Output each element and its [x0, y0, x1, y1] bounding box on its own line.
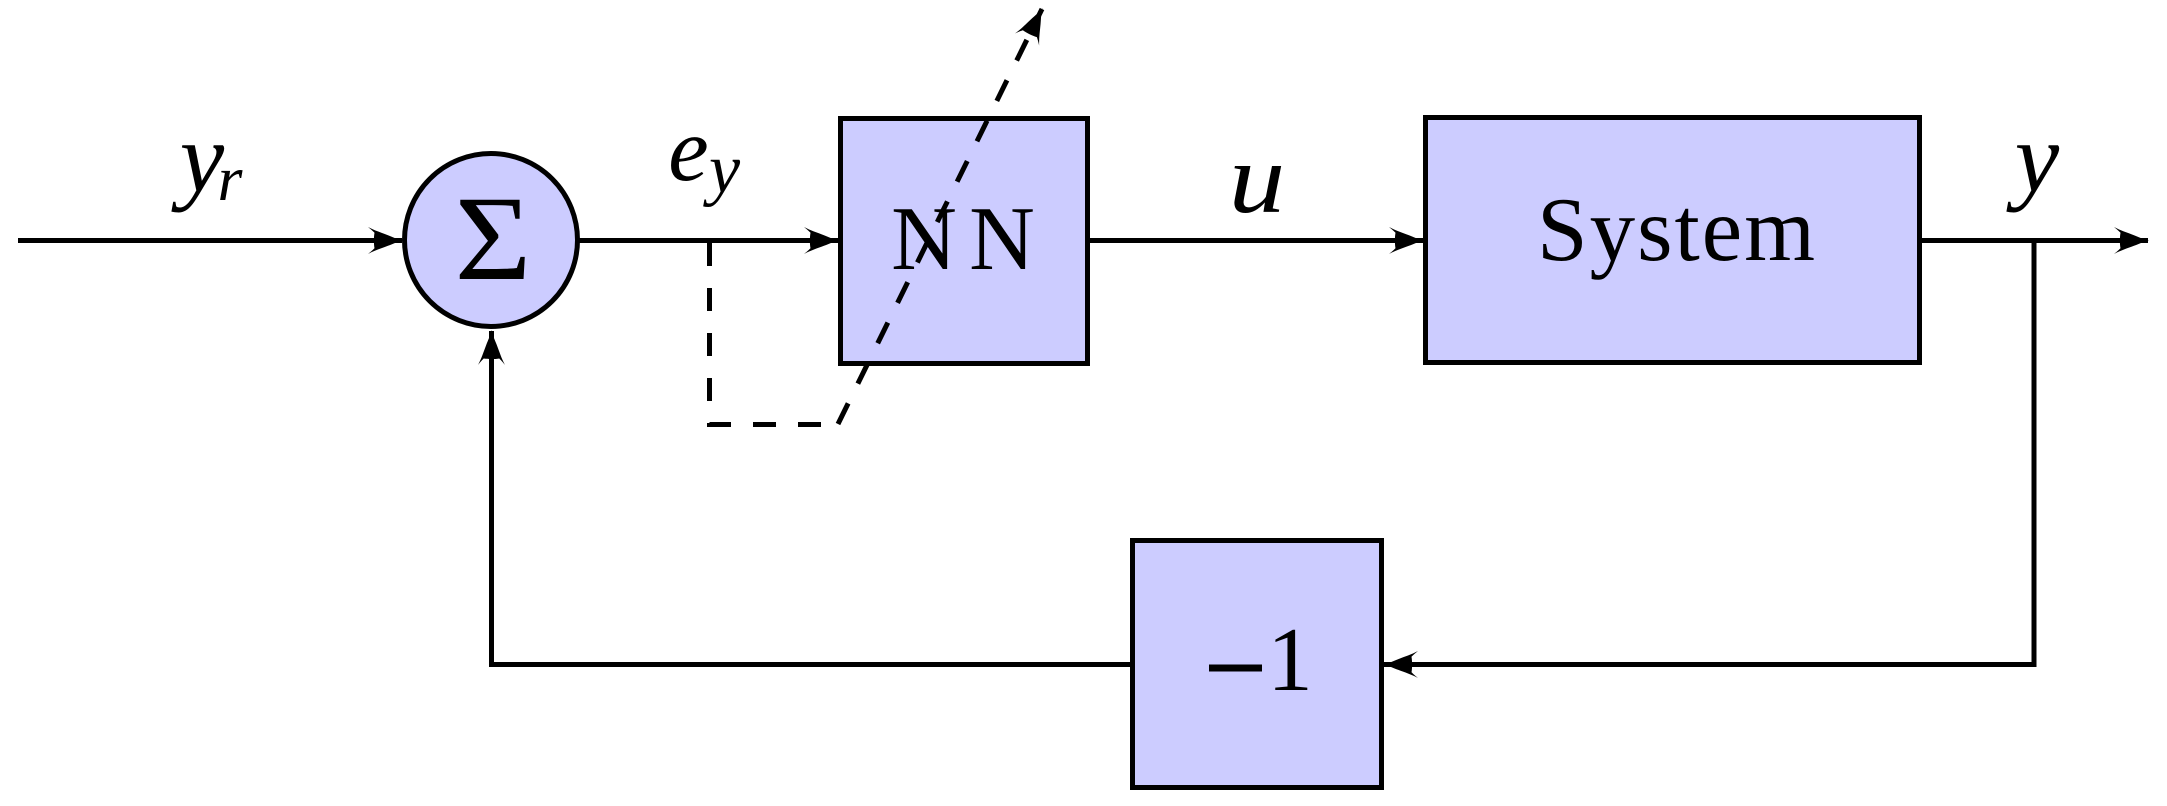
svg-text:System: System	[1537, 179, 1817, 280]
svg-text:y: y	[2006, 102, 2060, 213]
svg-text:Σ: Σ	[455, 172, 532, 306]
svg-text:N: N	[969, 188, 1035, 289]
svg-text:e: e	[668, 99, 708, 200]
svg-text:r: r	[218, 143, 244, 214]
svg-text:y: y	[703, 131, 741, 208]
svg-text:1: 1	[1267, 609, 1313, 710]
svg-text:u: u	[1229, 124, 1285, 235]
